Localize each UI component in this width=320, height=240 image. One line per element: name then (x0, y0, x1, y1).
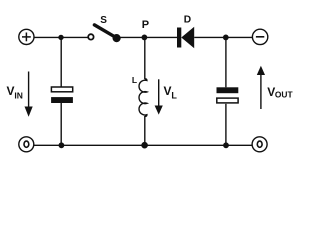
wire bottom rail (34, 144, 252, 146)
wire top rail from + to switch (34, 36, 88, 38)
svg-text:V: V (7, 84, 15, 98)
terminal 0 bottom left (19, 137, 34, 152)
node P (junction dot and label) (142, 19, 150, 40)
svg-text:IN: IN (14, 90, 23, 100)
terminal - (output negative) (252, 29, 267, 44)
svg-text:L: L (132, 75, 137, 85)
wire top rail from switch to diode (117, 36, 178, 38)
wire vertical from top-left junction to input capacitor (60, 37, 62, 87)
wire vertical from input capacitor to bottom rail (60, 103, 62, 145)
wire top rail from diode to - terminal (194, 36, 252, 38)
wire vertical from output capacitor to bottom rail (225, 104, 227, 146)
svg-text:V: V (164, 84, 172, 98)
diode D (cathode bar at node P side, anode at output side) (177, 15, 194, 49)
terminal + (input positive) (19, 29, 34, 44)
switch S (88, 15, 120, 42)
terminal 0 bottom right (252, 137, 267, 152)
svg-text:D: D (184, 15, 191, 26)
junction dot top left (input node) (58, 35, 63, 40)
junction dot bottom left (59, 142, 65, 148)
svg-text:S: S (100, 15, 107, 26)
inductor L (132, 75, 147, 116)
junction dot top right (output node) (223, 35, 229, 41)
wire vertical from node P down to inductor (144, 37, 146, 79)
svg-text:OUT: OUT (275, 90, 294, 100)
capacitor C1 (input electrolytic, + plate top hollow, - plate bottom solid) (51, 87, 73, 103)
capacitor C2 (output electrolytic, - plate top solid, + plate bottom hollow) (217, 87, 239, 103)
wire vertical from inductor down to bottom rail (144, 116, 146, 145)
wire vertical from top-right junction down to output capacitor (225, 37, 227, 87)
voltage arrow VL (downward) with label (155, 79, 178, 114)
voltage arrow VIN (downward) with label (7, 72, 33, 117)
junction dot bottom right (output cap leg) (223, 142, 229, 148)
svg-text:P: P (142, 19, 149, 31)
junction dot bottom middle (inductor leg) (141, 142, 148, 149)
voltage arrow VOUT (upward) with label (257, 66, 294, 109)
svg-text:L: L (171, 90, 177, 100)
